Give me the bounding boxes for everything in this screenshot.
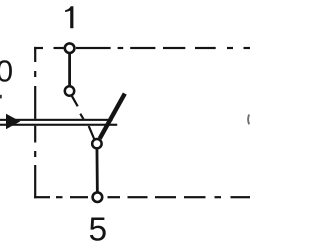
switch lever actuated position (thick) xyxy=(100,94,125,139)
actuator shaft (double line) xyxy=(0,119,113,126)
left edge tick xyxy=(0,95,2,99)
svg-text:5: 5 xyxy=(88,212,107,249)
svg-text:0: 0 xyxy=(0,54,13,89)
enclosure top border (dash-dot) xyxy=(34,47,250,49)
moving contact circle xyxy=(92,139,101,148)
actuator arrowhead xyxy=(6,114,20,130)
switch lever alternate position (thin, dashed) xyxy=(72,96,94,139)
enclosure left border (dash-dot) xyxy=(34,47,36,198)
fixed contact circle xyxy=(65,86,74,95)
terminal 5 circle xyxy=(93,192,103,202)
right edge partial glyph xyxy=(248,115,249,125)
terminal 1 circle xyxy=(65,43,75,53)
wire moving contact to terminal 5 xyxy=(96,144,99,198)
terminal label 1 xyxy=(65,6,73,28)
enclosure bottom border (dash-dot) xyxy=(34,196,250,198)
wire terminal 1 to fixed contact xyxy=(68,48,71,91)
